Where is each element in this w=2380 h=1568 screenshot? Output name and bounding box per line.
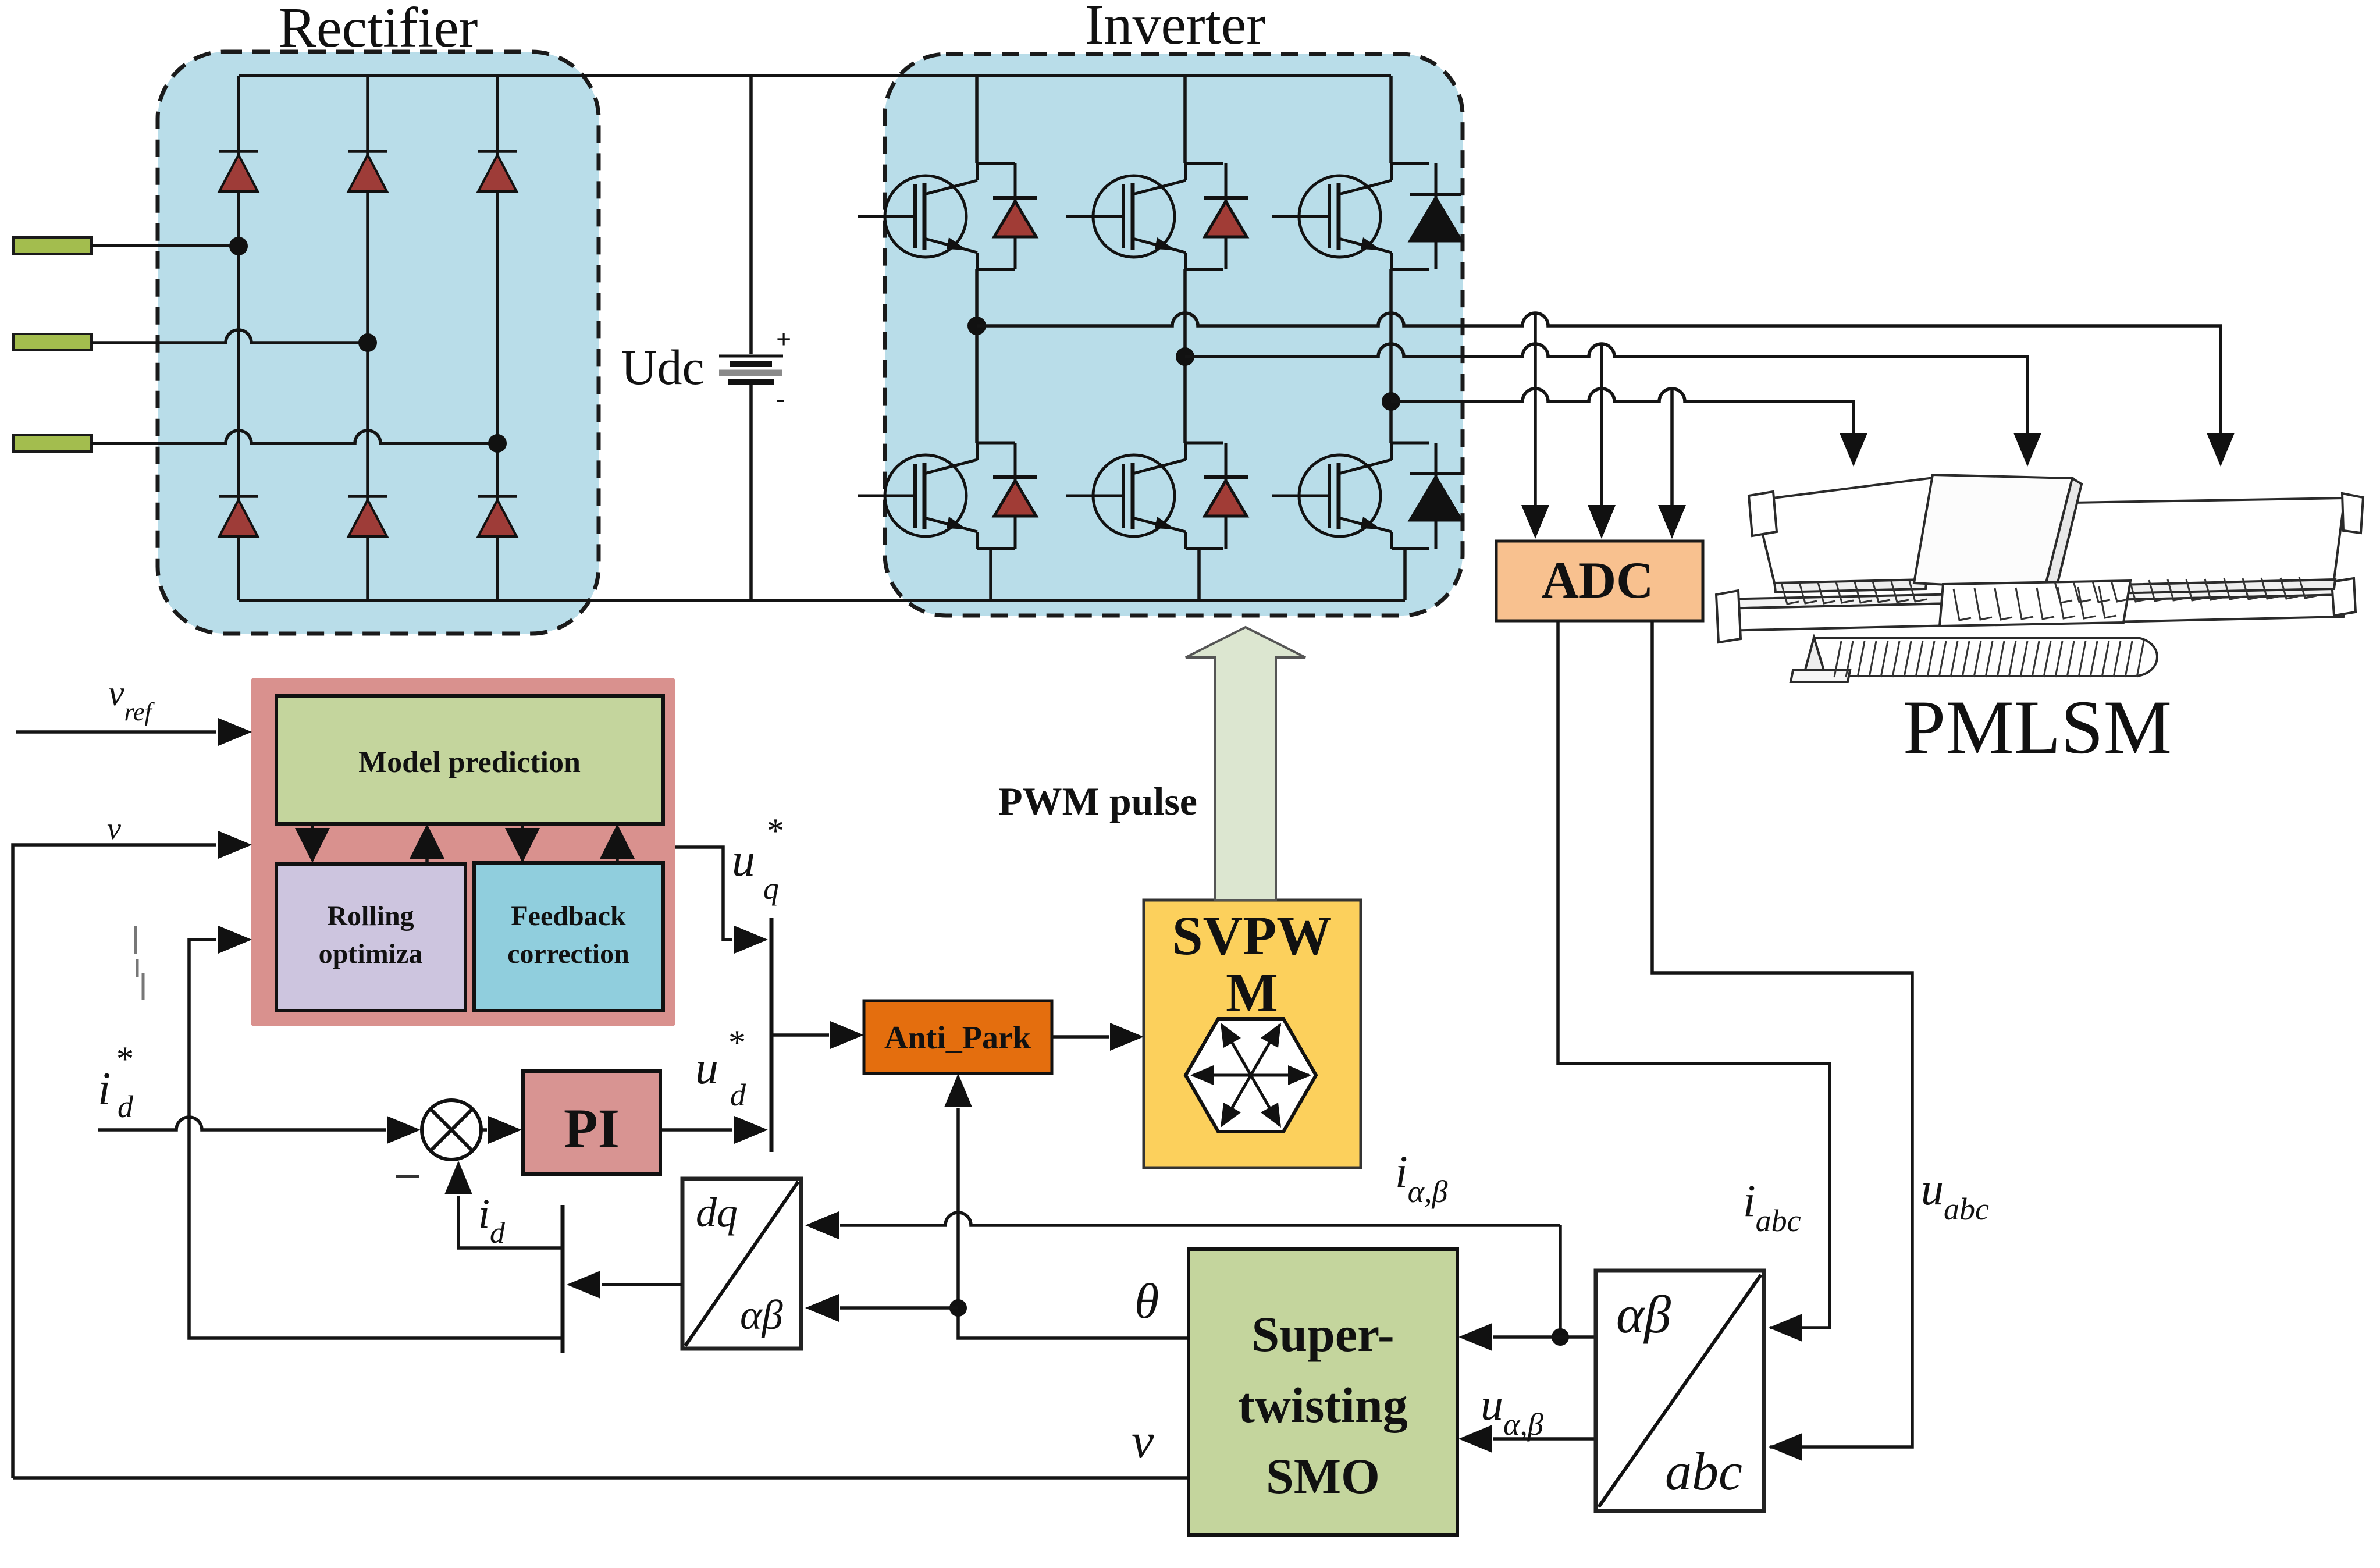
wire inverter leg3 lower exit xyxy=(1403,549,1407,600)
node phase c xyxy=(488,434,507,453)
node current junction bar xyxy=(561,1205,565,1353)
svg-text:Model prediction: Model prediction xyxy=(358,746,581,779)
capacitor C1 xyxy=(719,324,791,413)
wire DC link to capacitor top xyxy=(749,76,753,354)
diode DQ1 xyxy=(993,163,1037,269)
arrow tap a into ADC xyxy=(1521,505,1549,539)
arrow u_abc into ab-abc block xyxy=(1769,1433,1802,1461)
arrow i_q into MPC xyxy=(218,926,252,954)
wire v feedback into MPC xyxy=(13,845,216,1478)
node phase A xyxy=(967,317,986,335)
svg-text:dq: dq xyxy=(696,1189,738,1236)
wire dq output to bar xyxy=(602,1283,682,1286)
svg-text:θ: θ xyxy=(1134,1273,1159,1329)
svg-text:optimiza: optimiza xyxy=(319,938,423,969)
hexagon vector diagram xyxy=(1186,1019,1316,1132)
block Anti_Park xyxy=(864,1001,1052,1073)
block SVPWM xyxy=(1144,900,1361,1168)
wire sense tap b to ADC xyxy=(1600,345,1603,506)
wire phase c input xyxy=(91,431,497,443)
svg-text:Udc: Udc xyxy=(621,339,704,395)
node theta branch xyxy=(949,1299,967,1317)
svg-text:i: i xyxy=(98,1064,111,1115)
wire phase a input xyxy=(91,244,239,247)
arrow i_abc into ab-abc block xyxy=(1769,1314,1802,1342)
arrow feedback to model xyxy=(616,859,619,863)
transistor Q1 xyxy=(858,163,1015,269)
PMLSM hatching xyxy=(1781,577,2317,677)
arrow phase A into PMLSM xyxy=(2207,433,2235,467)
block MPC container xyxy=(251,678,675,1026)
PMLSM drawing xyxy=(1716,475,2363,682)
diode D1 xyxy=(219,151,258,191)
svg-text:u: u xyxy=(695,1043,718,1094)
block Rolling optimiza xyxy=(276,864,465,1011)
svg-text:PWM pulse: PWM pulse xyxy=(998,779,1197,823)
block ADC xyxy=(1496,541,1703,621)
wire inverter leg3 upper xyxy=(1389,76,1393,443)
arrow into SVPWM xyxy=(1110,1023,1144,1051)
wire u_ab from ab-abc to SMO xyxy=(1493,1437,1596,1441)
wire bus bar to Anti_Park xyxy=(771,1033,829,1037)
wire phase b input xyxy=(91,330,368,343)
svg-text:PI: PI xyxy=(564,1097,620,1160)
block ab-abc transform xyxy=(1596,1271,1764,1511)
block Model prediction xyxy=(276,696,663,824)
svg-text:M: M xyxy=(1226,962,1278,1023)
svg-text:u: u xyxy=(732,835,755,886)
arrow into PI xyxy=(488,1116,522,1144)
label minus sign xyxy=(396,1175,419,1178)
svg-text:SVPW: SVPW xyxy=(1172,905,1332,966)
node phase b xyxy=(358,333,377,352)
svg-text:Inverter: Inverter xyxy=(1085,0,1265,56)
arrow model to rolling xyxy=(311,824,314,829)
wire phase B to motor xyxy=(1185,344,2027,433)
arrow u_ab into SMO xyxy=(1458,1425,1492,1453)
svg-text:Anti_Park: Anti_Park xyxy=(884,1020,1031,1056)
arrow theta into dq block xyxy=(805,1294,839,1322)
diode D6 xyxy=(478,496,517,536)
wire inverter leg1 upper xyxy=(975,76,979,443)
wire i_ab into SMO xyxy=(1493,1335,1560,1339)
wire sense tap c to ADC xyxy=(1670,390,1674,506)
node phase a xyxy=(229,237,248,255)
svg-text:αβ: αβ xyxy=(1616,1285,1671,1344)
svg-text:ADC: ADC xyxy=(1542,552,1654,609)
arrow u_q* into bus bar xyxy=(734,926,768,954)
diode DQ5 xyxy=(1204,443,1248,549)
svg-text:twisting: twisting xyxy=(1238,1377,1407,1433)
svg-text:vref: vref xyxy=(108,674,155,726)
node i_ab junction xyxy=(1552,1328,1569,1346)
arrow i_ab into dq block xyxy=(805,1211,839,1239)
wire i_ab to dq block xyxy=(840,1213,1560,1225)
arrow phase C into PMLSM xyxy=(1840,433,1867,467)
inverter block outline xyxy=(885,54,1463,616)
wire rectifier leg 1 xyxy=(237,76,240,600)
summing junction S1 xyxy=(422,1100,481,1160)
node voltage bus bar xyxy=(770,918,774,1152)
wire rectifier leg 3 xyxy=(496,76,499,600)
arrow tap c into ADC xyxy=(1658,505,1686,539)
terminal phase b xyxy=(13,334,91,350)
svg-text:PMLSM: PMLSM xyxy=(1903,684,2172,770)
svg-text:Rolling: Rolling xyxy=(327,901,414,931)
wire inverter leg2 lower exit xyxy=(1197,549,1201,600)
wire i_q feedback into MPC xyxy=(189,940,563,1338)
wire theta to dq block xyxy=(840,1306,958,1310)
arrow theta into Anti_Park xyxy=(944,1073,972,1107)
wire i_d to summing xyxy=(458,1196,563,1248)
diode DQ3 xyxy=(1410,163,1461,269)
wire i_ab from ab-abc block xyxy=(1560,1335,1596,1339)
arrow PWM pulse xyxy=(1186,627,1305,900)
rectifier block outline xyxy=(158,52,599,634)
svg-text:d: d xyxy=(730,1078,746,1112)
wire i_ab vertical xyxy=(1559,1225,1562,1337)
arrow u_d* into bus bar xyxy=(734,1116,768,1144)
block PI xyxy=(523,1071,660,1174)
arrow tap b into ADC xyxy=(1588,505,1616,539)
wire sense tap a to ADC xyxy=(1534,314,1537,506)
wire inverter leg2 upper xyxy=(1183,76,1187,443)
wire u_q* from MPC xyxy=(675,847,732,940)
block Super-twisting SMO xyxy=(1189,1249,1457,1535)
svg-text:Feedback: Feedback xyxy=(511,901,626,931)
arrow into Anti_Park xyxy=(830,1021,864,1049)
arrow model to feedback xyxy=(521,824,524,829)
transistor Q2 xyxy=(1066,163,1223,269)
svg-text:*: * xyxy=(116,1040,134,1078)
arrow dq output at bar xyxy=(567,1271,600,1299)
diode D5 xyxy=(348,496,387,536)
svg-text:*: * xyxy=(767,812,784,850)
svg-text:iabc: iabc xyxy=(1743,1175,1801,1238)
transistor Q4 xyxy=(858,443,1015,549)
terminal phase a xyxy=(13,237,91,254)
diode DQ6 xyxy=(1410,443,1461,549)
transistor Q5 xyxy=(1066,443,1223,549)
wire theta from SMO xyxy=(958,1108,1189,1338)
wire inverter leg1 lower exit xyxy=(989,549,992,600)
wire v_ref input xyxy=(16,730,216,734)
terminal phase c xyxy=(13,435,91,451)
transistor Q6 xyxy=(1272,443,1429,549)
svg-text:q: q xyxy=(763,871,779,906)
wire PI output u_d* xyxy=(660,1128,732,1132)
arrow v into MPC xyxy=(218,831,252,859)
svg-text:v: v xyxy=(107,811,121,846)
svg-text:+: + xyxy=(776,324,791,354)
block Feedback correction xyxy=(474,863,663,1011)
svg-text:d: d xyxy=(118,1089,134,1124)
diode DQ4 xyxy=(993,443,1037,549)
wire phase C to motor xyxy=(1391,389,1854,433)
node phase C xyxy=(1382,392,1400,411)
diode D4 xyxy=(219,496,258,536)
svg-text:SMO: SMO xyxy=(1266,1448,1380,1504)
wire phase A to motor xyxy=(977,313,2221,433)
label i_q faint xyxy=(136,926,143,1000)
svg-text:abc: abc xyxy=(1665,1442,1742,1501)
transistor Q3 xyxy=(1272,163,1429,269)
svg-text:Super-: Super- xyxy=(1251,1306,1394,1362)
wire capacitor bottom xyxy=(749,385,753,600)
arrow i_d into sum xyxy=(444,1161,472,1194)
wire rectifier leg 2 xyxy=(366,76,369,600)
arrow i_ab into SMO xyxy=(1458,1323,1492,1351)
arrow phase B into PMLSM xyxy=(2013,433,2041,467)
svg-text:correction: correction xyxy=(507,938,629,969)
svg-text:-: - xyxy=(776,383,785,413)
wire DC- bottom bus xyxy=(239,599,1405,602)
diode D2 xyxy=(348,151,387,191)
arrow v_ref into MPC xyxy=(218,718,252,746)
wire DC+ top bus xyxy=(239,74,1391,77)
arrow rolling to model xyxy=(425,859,429,863)
diode D3 xyxy=(478,151,517,191)
wire sum to PI xyxy=(481,1128,487,1132)
svg-text:αβ: αβ xyxy=(740,1292,783,1338)
diode DQ2 xyxy=(1204,163,1248,269)
wire i_d* input xyxy=(98,1117,386,1130)
block dq-ab transform xyxy=(682,1179,801,1349)
svg-text:iα,β: iα,β xyxy=(1395,1146,1448,1209)
svg-text:*: * xyxy=(728,1023,746,1062)
svg-text:uabc: uabc xyxy=(1921,1164,1989,1226)
svg-text:id: id xyxy=(478,1190,506,1250)
wire v output from SMO xyxy=(13,1476,1189,1480)
svg-text:v: v xyxy=(1132,1413,1154,1469)
wire ADC output u_abc xyxy=(1652,621,1912,1447)
svg-text:Rectifier: Rectifier xyxy=(279,0,478,59)
arrow i_d* into sum xyxy=(387,1116,421,1144)
wire Anti_Park to SVPWM xyxy=(1052,1035,1109,1039)
wire ADC output i_abc xyxy=(1558,621,1830,1328)
node phase B xyxy=(1176,347,1194,366)
